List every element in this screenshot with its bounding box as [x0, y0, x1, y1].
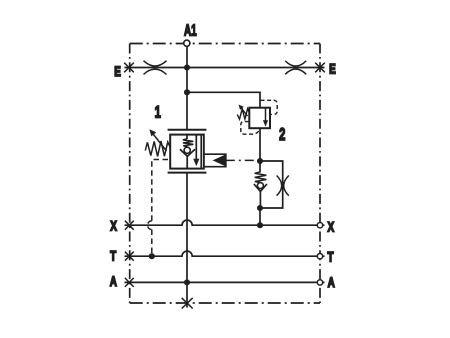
svg-text:A1: A1 — [184, 21, 197, 39]
envelope boundary top (dash-dot) — [130, 43, 320, 45]
envelope boundary right (dashed) — [319, 44, 321, 304]
node branch junction to valve 2 — [184, 89, 190, 95]
valve U1 bottom cap line — [168, 172, 207, 174]
valve U1 poppet seat — [180, 149, 195, 156]
valve U1 top cap line — [168, 129, 207, 131]
wire trunk below valve 1 to bottom — [186, 173, 188, 308]
svg-text:T: T — [327, 249, 334, 265]
plugged port X left (cross) — [125, 221, 134, 230]
valve U1 poppet feed line — [186, 135, 188, 139]
svg-text:1: 1 — [155, 102, 161, 121]
wire drain hop over X line — [148, 221, 152, 230]
node A-trunk junction — [184, 279, 190, 285]
wire combo to X line — [259, 208, 261, 225]
valve U1 pilot triangle — [213, 154, 226, 166]
plugged port T left (cross) — [125, 252, 134, 261]
wire drain dashed from U1 spring side — [152, 160, 168, 221]
port A right circle — [317, 280, 322, 285]
envelope boundary left (dashed) — [129, 44, 131, 304]
svg-text:E: E — [329, 61, 336, 77]
plugged port A left (cross) — [125, 278, 134, 287]
svg-text:X: X — [110, 218, 117, 234]
wire X line with bridge over trunk — [125, 220, 325, 225]
valve U1 internal divider — [200, 135, 202, 169]
valve U2 pilot dashed loop upper right — [261, 100, 278, 114]
svg-text:A: A — [328, 274, 335, 290]
plugged port bottom (cross) — [182, 298, 193, 309]
wire A line — [125, 281, 325, 283]
port T right circle — [317, 254, 322, 259]
valve U1 poppet outlet stem — [186, 156, 188, 168]
node pilot junction — [257, 158, 263, 164]
wire drain dashed to T line — [151, 230, 153, 257]
wire T line with bridge over trunk — [125, 251, 325, 256]
orifice vertical in combo — [277, 176, 289, 196]
svg-text:E: E — [114, 63, 121, 79]
node drain-T junction — [149, 253, 155, 259]
wire branch to valve 2 — [187, 92, 260, 107]
valve U1 pilot actuator box — [204, 154, 226, 167]
check valve V1 line — [259, 161, 261, 172]
node combo bottom junction — [257, 205, 263, 211]
svg-text:X: X — [327, 219, 334, 235]
node combo-X junction — [257, 222, 263, 228]
plugged port E left (cross) — [124, 63, 134, 73]
valve U1 adjustment spring — [145, 141, 170, 156]
valve U1 adjustment arrow — [154, 135, 167, 152]
valve U1 poppet spring — [183, 139, 194, 147]
wire E line horizontal — [125, 67, 325, 69]
wire combo right branch — [260, 161, 283, 208]
orifice on E line left — [144, 61, 167, 75]
port A1 circle — [184, 40, 190, 46]
valve U1 body box — [170, 135, 204, 169]
valve U2 adjustment arrow — [242, 108, 248, 116]
wire pilot dash-dot from U1 to node — [226, 159, 260, 161]
check valve V1 outlet — [259, 191, 261, 208]
port X right circle — [317, 223, 322, 228]
envelope boundary bottom (dash-dot) — [130, 302, 320, 304]
valve U1 flow arrow — [195, 135, 197, 159]
wire U2 outlet down to pilot node — [259, 128, 261, 161]
node E-trunk junction — [184, 64, 190, 70]
plugged port E right (cross) — [315, 63, 325, 73]
valve U2 adjustment spring — [237, 109, 249, 120]
svg-text:T: T — [110, 248, 117, 264]
svg-text:2: 2 — [279, 126, 285, 145]
valve U1 poppet ball — [184, 147, 190, 153]
wire trunk from A1 down to valve 1 — [186, 46, 188, 130]
check valve V1 ball — [257, 183, 263, 189]
valve U2 body box — [249, 108, 270, 129]
check valve V1 seat — [254, 184, 267, 191]
check valve V1 spring — [255, 172, 267, 183]
svg-text:A: A — [110, 273, 117, 289]
orifice on E line right — [285, 61, 306, 74]
valve U2 drain dashed loop lower left — [241, 122, 259, 135]
valve U2 flow arrow — [265, 108, 267, 121]
